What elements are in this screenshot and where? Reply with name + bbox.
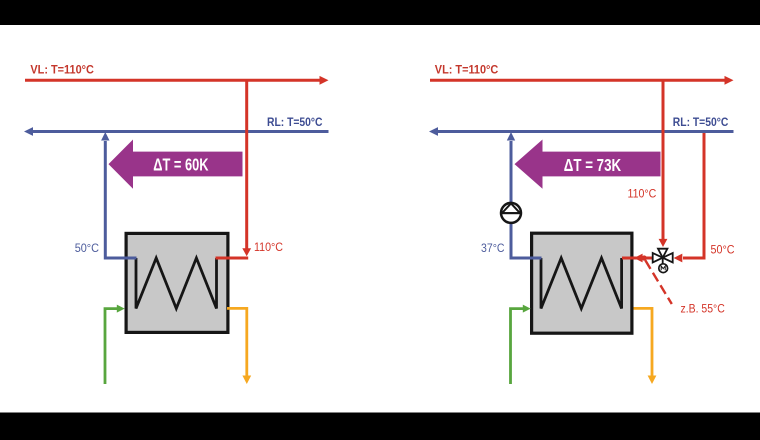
svg-text:50°C: 50°C — [75, 241, 99, 255]
svg-text:z.B. 55°C: z.B. 55°C — [681, 302, 725, 316]
svg-text:ΔT = 60K: ΔT = 60K — [153, 155, 208, 175]
svg-text:50°C: 50°C — [711, 243, 735, 257]
svg-text:RL: T=50°C: RL: T=50°C — [267, 115, 323, 129]
svg-text:110°C: 110°C — [254, 240, 283, 254]
svg-text:VL: T=110°C: VL: T=110°C — [435, 63, 499, 77]
svg-text:VL: T=110°C: VL: T=110°C — [30, 63, 94, 77]
svg-text:ΔT = 73K: ΔT = 73K — [564, 155, 622, 175]
svg-text:37°C: 37°C — [481, 241, 505, 255]
svg-text:RL: T=50°C: RL: T=50°C — [673, 115, 729, 129]
svg-text:110°C: 110°C — [628, 187, 657, 201]
